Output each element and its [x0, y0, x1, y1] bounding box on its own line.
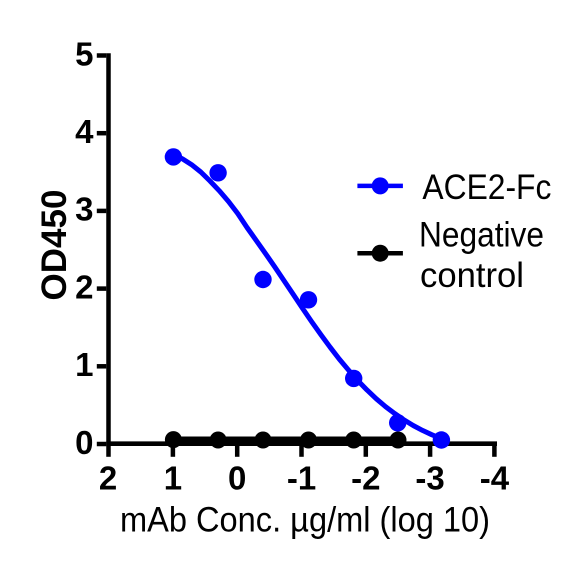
svg-text:5: 5 [75, 35, 93, 72]
ACE2-Fc data points [165, 148, 450, 449]
legend ACE2-Fc marker [372, 177, 389, 194]
y tick 0 [97, 442, 107, 447]
svg-text:0: 0 [75, 424, 93, 461]
svg-text:Negative: Negative [419, 216, 544, 255]
x tick 0 [235, 446, 240, 457]
x tick 1 [171, 446, 176, 457]
Negative control line [173, 437, 398, 442]
svg-text:mAb Conc. µg/ml (log 10): mAb Conc. µg/ml (log 10) [120, 501, 490, 540]
svg-text:1: 1 [164, 460, 182, 497]
svg-text:2: 2 [99, 460, 117, 497]
svg-text:-4: -4 [480, 460, 510, 497]
y tick 4 [97, 131, 107, 136]
svg-text:-1: -1 [287, 460, 316, 497]
y axis numbering [75, 35, 94, 461]
svg-text:0: 0 [228, 460, 246, 497]
x tick -2 [364, 446, 369, 457]
svg-text:ACE2-Fc: ACE2-Fc [422, 168, 551, 207]
svg-text:-3: -3 [415, 460, 444, 497]
svg-text:OD450: OD450 [35, 190, 74, 301]
Negative control data points [165, 431, 407, 448]
y tick 5 [97, 53, 107, 58]
svg-text:3: 3 [75, 191, 93, 228]
svg-text:control: control [420, 256, 524, 295]
y tick 3 [97, 209, 107, 214]
x axis numbering [99, 460, 510, 497]
svg-text:1: 1 [75, 346, 93, 383]
x tick 2 [106, 446, 111, 457]
svg-text:-2: -2 [351, 460, 380, 497]
x-axis line [106, 441, 497, 446]
x tick -4 [492, 446, 497, 457]
legend ACE2-Fc line [357, 184, 403, 189]
legend Negative control line [357, 251, 403, 256]
svg-text:2: 2 [75, 268, 93, 305]
x tick -1 [299, 446, 304, 457]
y tick 2 [97, 286, 107, 291]
svg-text:4: 4 [75, 113, 94, 150]
x tick -3 [428, 446, 433, 457]
legend Negative control marker [372, 245, 389, 262]
ACE2-Fc fitted curve [173, 154, 441, 439]
y tick 1 [97, 364, 107, 369]
y-axis line [106, 53, 111, 446]
